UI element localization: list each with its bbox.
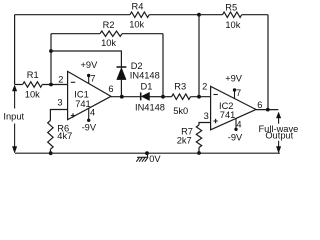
svg-text:4: 4	[90, 107, 95, 117]
diode D1 IN4148	[140, 92, 142, 100]
svg-text:10k: 10k	[225, 20, 240, 30]
svg-text:10k: 10k	[25, 90, 40, 100]
svg-text:2: 2	[202, 81, 207, 91]
svg-text:-9V: -9V	[228, 132, 243, 142]
IC2 pin3 wire to R7	[199, 123, 211, 126]
resistor R4	[130, 12, 149, 17]
node output/R5 junction	[266, 108, 270, 112]
svg-text:IN4148: IN4148	[135, 103, 165, 113]
svg-text:7: 7	[236, 88, 241, 98]
resistor R6	[48, 121, 53, 150]
svg-text:10k: 10k	[129, 20, 144, 30]
wire summing node to D2 cathode	[51, 51, 121, 67]
node R6 to rail	[49, 151, 53, 155]
svg-text:5k0: 5k0	[173, 106, 188, 116]
resistor R3	[163, 96, 172, 98]
svg-text:R2: R2	[103, 20, 115, 30]
node junction R4/R5/IC2 summing feed	[197, 13, 201, 17]
svg-text:3: 3	[204, 111, 209, 121]
resistor R1	[15, 84, 23, 86]
wire R5 feedback down right side to IC2 output	[267, 15, 269, 110]
IC2 minus input mark	[213, 94, 217, 96]
svg-text:R3: R3	[174, 81, 186, 91]
svg-text:6: 6	[108, 84, 113, 94]
node D2 anode junction	[120, 95, 124, 99]
svg-text:R1: R1	[27, 70, 39, 80]
node R7 to rail	[197, 151, 201, 155]
svg-text:R4: R4	[132, 2, 144, 12]
ground symbol	[145, 151, 149, 155]
node R3/R4 junction IC2 pin2	[197, 95, 201, 99]
wire 0V bottom rail	[15, 152, 280, 154]
input arrow up	[14, 91, 16, 109]
svg-text:Input: Input	[3, 111, 24, 121]
output arrow down	[278, 141, 280, 147]
svg-text:0V: 0V	[149, 154, 161, 164]
output arrow up	[278, 118, 280, 124]
svg-text:2: 2	[58, 74, 63, 84]
svg-text:-9V: -9V	[82, 122, 97, 132]
svg-text:R5: R5	[225, 3, 237, 13]
IC2 pin 4 supply stub -9V	[235, 118, 237, 129]
svg-text:+9V: +9V	[225, 74, 243, 84]
resistor R7	[196, 125, 201, 148]
wire IC2 output	[256, 109, 278, 111]
svg-text:D1: D1	[141, 81, 153, 91]
node summing junction IC1 pin2	[49, 83, 53, 87]
resistor R5	[199, 14, 223, 16]
wire R4 to junction	[149, 14, 199, 16]
op-amp IC2 741	[211, 86, 256, 130]
IC1 pin 4 supply stub -9V	[88, 108, 90, 120]
IC1 pin3 wire to R6	[50, 110, 67, 121]
IC1 minus input mark	[71, 81, 75, 83]
svg-text:741: 741	[75, 99, 91, 109]
svg-text:Output: Output	[265, 131, 293, 141]
wire left input drop	[14, 15, 16, 85]
svg-text:4k7: 4k7	[57, 131, 72, 141]
svg-text:3: 3	[57, 98, 62, 108]
svg-text:4: 4	[236, 120, 241, 130]
IC1 plus input mark	[71, 113, 75, 117]
IC2 pin 7 supply stub +9V	[234, 90, 236, 99]
svg-text:IN4148: IN4148	[130, 71, 160, 81]
svg-text:6: 6	[257, 100, 262, 110]
svg-text:2k7: 2k7	[177, 135, 192, 145]
wire top rail from input node to R4	[15, 14, 130, 16]
svg-text:+9V: +9V	[80, 60, 98, 70]
wire R4 feedback drop	[198, 15, 200, 97]
resistor R2	[51, 33, 100, 35]
wire IC1 output	[111, 96, 140, 98]
wire feedback left drop R2	[50, 34, 52, 85]
node D1/R2 junction	[161, 95, 165, 99]
IC1 pin 7 supply stub +9V	[88, 76, 90, 85]
node D2 tap on summing line	[49, 49, 53, 53]
diode D2 IN4148	[117, 66, 127, 68]
input arrow down to 0V rail	[14, 124, 16, 148]
op-amp IC1 741	[68, 71, 111, 119]
wire R2 right drop to D1 node	[162, 34, 164, 97]
svg-text:10k: 10k	[101, 38, 116, 48]
svg-text:741: 741	[220, 110, 236, 120]
svg-text:7: 7	[90, 73, 95, 83]
IC2 plus input mark	[213, 119, 217, 123]
